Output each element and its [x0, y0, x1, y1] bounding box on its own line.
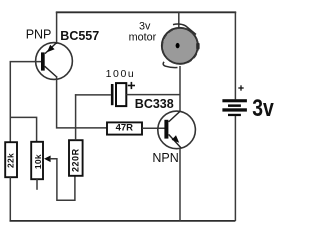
motor M1 3v	[162, 24, 200, 68]
svg-text:3v: 3v	[252, 96, 274, 122]
wire: 47R to NPN base	[142, 127, 165, 129]
wire: 22k bottom to rail	[9, 177, 11, 221]
svg-text:3v: 3v	[139, 20, 151, 32]
svg-text:22k: 22k	[6, 153, 16, 168]
svg-text:10k: 10k	[33, 154, 43, 169]
wire: bottom return rail	[10, 220, 236, 222]
wire: wiper loop to 220R bottom	[50, 159, 75, 201]
wire: battery positive to top rail	[234, 12, 236, 99]
wire: pot bottom open stub	[36, 179, 38, 190]
svg-text:47R: 47R	[116, 122, 134, 133]
svg-text:BC338: BC338	[135, 97, 174, 111]
transistor Q1 BC557 PNP	[36, 43, 73, 80]
svg-text:220R: 220R	[71, 148, 81, 172]
wire: PNP emitter to top rail	[56, 12, 58, 44]
battery BT1 3v	[222, 85, 247, 116]
svg-text:NPN: NPN	[152, 151, 178, 165]
wire: capacitor right lead to motor branch	[126, 94, 180, 96]
wire: NPN emitter down to rail	[179, 148, 181, 221]
wire: motor branch vertical (NPN collector up to motor)	[179, 66, 181, 111]
svg-text:100u: 100u	[106, 68, 136, 80]
resistor R4 47R	[107, 122, 142, 134]
potentiometer R2 10k	[31, 142, 43, 179]
pot wiper arrow	[44, 156, 51, 163]
wire: PNP collector down then right to 47R	[57, 76, 107, 128]
wire: base node across to pot top	[10, 117, 36, 141]
wire: battery negative down to rail	[234, 116, 236, 221]
wire: capacitor left lead	[75, 94, 111, 96]
resistor R1 22k	[5, 142, 17, 177]
svg-text:BC557: BC557	[60, 29, 99, 43]
svg-text:PNP: PNP	[26, 27, 52, 41]
wire: 220R top to capacitor node	[75, 94, 77, 140]
svg-text:motor: motor	[129, 32, 157, 44]
wire: motor top to rail	[178, 12, 180, 29]
resistor R3 220R	[69, 140, 83, 176]
wire: PNP base left and down to 22k	[10, 62, 41, 143]
wire: top supply rail	[56, 11, 236, 13]
capacitor C1 100u	[111, 82, 135, 106]
transistor Q2 BC338 NPN	[158, 111, 196, 149]
